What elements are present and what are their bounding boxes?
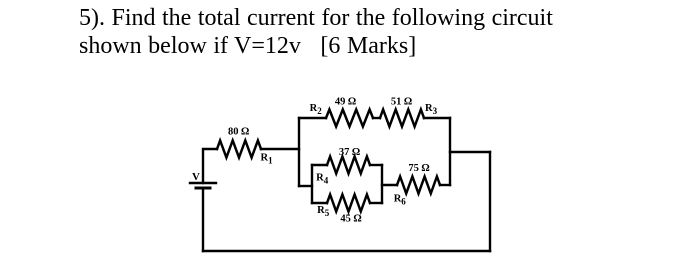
battery V short plate bbox=[196, 187, 210, 190]
resistor R1 bbox=[217, 141, 261, 158]
battery V long plate bbox=[190, 182, 216, 184]
wire node A to R2 bbox=[299, 117, 326, 119]
wire node A to parallel block bbox=[299, 185, 312, 187]
wire right bar to R6 bbox=[382, 184, 397, 186]
svg-text:49 Ω: 49 Ω bbox=[335, 96, 356, 107]
wire left bar to R4 bbox=[312, 164, 327, 166]
svg-text:R4: R4 bbox=[316, 172, 329, 185]
question text bbox=[79, 4, 553, 60]
svg-text:V: V bbox=[192, 171, 200, 183]
wire left bar to R5 bbox=[312, 202, 327, 204]
wire R4 to right bar bbox=[370, 164, 382, 166]
resistor R6 bbox=[397, 177, 440, 194]
right rail wire bbox=[489, 152, 491, 251]
svg-text:80 Ω: 80 Ω bbox=[228, 127, 249, 138]
wire R6 to node B bbox=[440, 184, 450, 186]
wire R1 to node A bbox=[261, 148, 299, 150]
wire R3 to node B bbox=[424, 117, 450, 119]
svg-text:R5: R5 bbox=[317, 205, 330, 218]
wire node B to right rail bbox=[450, 151, 490, 153]
resistor R3 bbox=[380, 110, 424, 127]
svg-text:37 Ω: 37 Ω bbox=[339, 147, 360, 158]
svg-text:R1: R1 bbox=[261, 152, 274, 165]
resistor R5 bbox=[327, 195, 370, 212]
svg-text:75 Ω: 75 Ω bbox=[408, 163, 429, 174]
parallel block left bar bbox=[311, 165, 313, 203]
bottom return wire bbox=[203, 250, 490, 252]
resistor R4 bbox=[327, 157, 370, 174]
resistor R2 bbox=[326, 110, 373, 127]
svg-text:R6: R6 bbox=[394, 194, 407, 207]
parallel block right bar bbox=[381, 165, 383, 203]
svg-text:51 Ω: 51 Ω bbox=[391, 96, 412, 107]
wire battery positive to R1 bbox=[203, 149, 217, 183]
node B vertical wire bbox=[449, 118, 451, 185]
svg-text:45 Ω: 45 Ω bbox=[340, 213, 361, 224]
wire bottom to battery negative bbox=[202, 188, 204, 251]
node A vertical wire bbox=[298, 118, 300, 186]
wire R5 to right bar bbox=[370, 202, 382, 204]
svg-text:R3: R3 bbox=[425, 103, 438, 116]
wire R2 to R3 bbox=[373, 117, 380, 119]
svg-text:R2: R2 bbox=[310, 103, 323, 116]
